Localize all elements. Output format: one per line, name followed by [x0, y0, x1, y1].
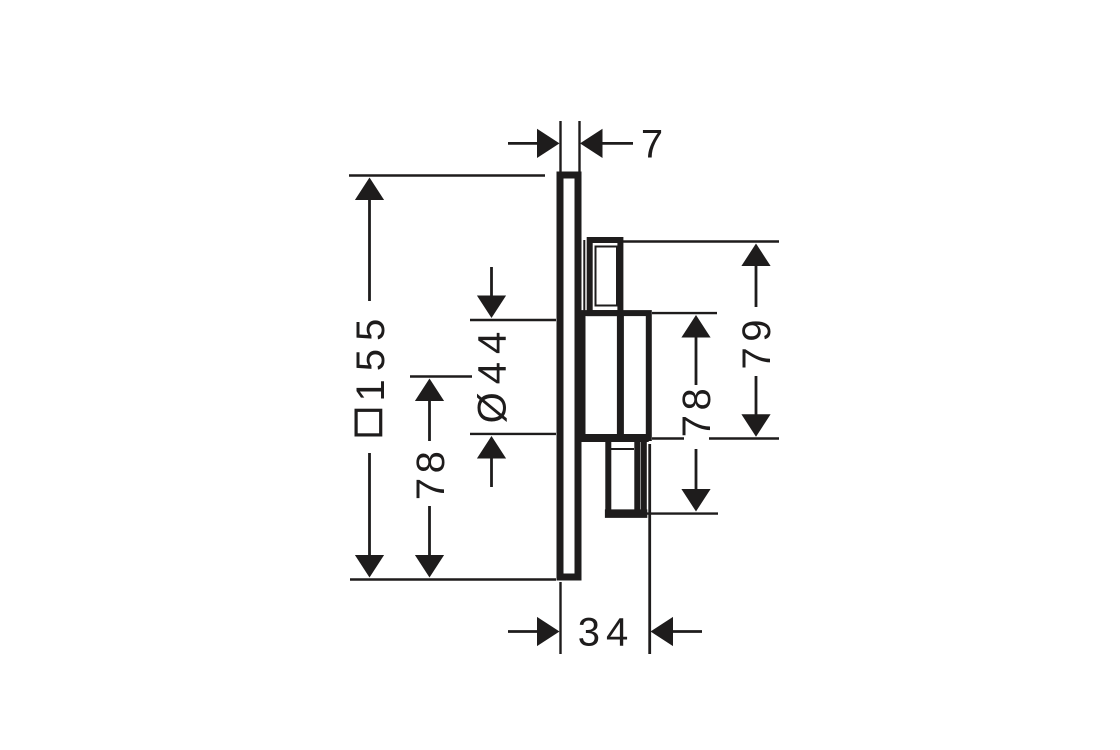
dimension diameter 44 top extension line	[470, 319, 556, 321]
dimension 34 right extension line	[648, 444, 651, 654]
dimension square-155 value label	[349, 311, 393, 435]
svg-text:155: 155	[349, 311, 393, 402]
dimension 7 right arrow	[580, 129, 633, 158]
svg-text:7: 7	[641, 123, 663, 167]
svg-text:78: 78	[675, 384, 719, 438]
dimension diameter 44 value label	[470, 324, 514, 424]
dimension 7 left arrow	[508, 129, 560, 158]
dimension 155 bottom arrow	[355, 453, 384, 578]
dimension 155 top extension line	[349, 174, 545, 176]
dimension 34 left arrow	[508, 617, 560, 646]
dimension diameter 44 bottom extension line	[470, 433, 556, 435]
dimension 34 left extension line	[559, 582, 561, 654]
svg-text:Ø44: Ø44	[470, 324, 514, 424]
dimension 79 value label	[735, 314, 779, 370]
dimension 155 top arrow	[355, 178, 384, 302]
dimension 34 value label	[578, 611, 635, 655]
dimension 78 left top arrow	[415, 379, 444, 442]
dimension 79 top extension line	[623, 240, 779, 242]
dimension 78 left bottom arrow	[415, 506, 444, 578]
dimension 78 left value label	[409, 447, 453, 501]
dimension 78 right top extension line	[652, 312, 717, 314]
lower spigot (bottom small rectangle)	[605, 438, 647, 514]
dimension 78 right top arrow	[681, 315, 710, 385]
dimension 78 right value label	[675, 384, 719, 438]
dimension 78 left top extension line	[410, 375, 472, 377]
dimension 7 value label	[641, 123, 663, 167]
dimension 34 right arrow	[651, 617, 703, 646]
dimension 155 bottom extension line	[350, 578, 556, 580]
handle sleeve (top small rectangle)	[584, 240, 620, 313]
faceplate (side view, tall thin plate)	[560, 175, 578, 577]
valve body (middle rectangle)	[577, 313, 649, 438]
dimension 78 right bottom extension line	[640, 512, 718, 514]
dimension 78 right bottom arrow	[681, 449, 710, 512]
dimension 7 extension line right	[578, 121, 580, 172]
svg-text:34: 34	[578, 611, 635, 655]
svg-text:78: 78	[409, 447, 453, 501]
dimension diameter 44 top arrow	[477, 267, 506, 318]
dimension 7 extension line left	[559, 121, 561, 172]
dimension diameter 44 bottom arrow	[477, 436, 506, 487]
dimension 79 top arrow	[741, 244, 770, 308]
dimension 79 bottom arrow	[741, 376, 770, 437]
dimension 79 bottom extension line	[652, 437, 779, 439]
svg-text:79: 79	[735, 314, 779, 370]
